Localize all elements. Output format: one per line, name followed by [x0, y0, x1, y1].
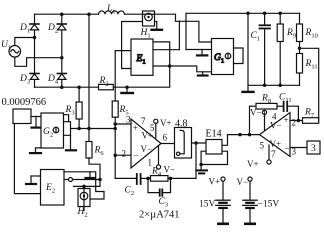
wire: E14 right upper pin from op2 output	[222, 135, 228, 146]
wire: feedback riser op2	[249, 106, 251, 134]
block E14	[206, 140, 222, 155]
block G2	[41, 113, 64, 148]
node: rail2 top junction	[60, 12, 64, 16]
wire: bridge output lower sense (U1 bottom)	[15, 57, 62, 66]
Hall sensor H1	[143, 11, 155, 26]
node: rail1 u1 junction	[33, 36, 37, 40]
capacitor C1	[260, 13, 271, 85]
wire: bridge rail 2 vertical	[61, 14, 63, 87]
svg-text:3: 3	[311, 144, 316, 154]
wire: E1 p3 to junction	[153, 65, 170, 67]
node: H2 top junction	[82, 185, 86, 189]
wire: E2 right upper pin to H2 loop	[64, 172, 104, 199]
node: pin2/C11 junction	[297, 119, 301, 123]
node: drop top	[246, 12, 250, 16]
svg-text:7: 7	[141, 116, 146, 126]
block output 3	[307, 141, 320, 154]
wire: E2 left lower pin from setpoint box	[14, 124, 40, 194]
svg-text:+: +	[133, 123, 138, 133]
node: junction at x169.7 y66	[168, 64, 172, 68]
svg-text:3: 3	[126, 115, 131, 125]
wire: 4.8 output to E14	[192, 142, 207, 144]
svg-text:4.8: 4.8	[175, 119, 188, 130]
wire: x89 long vertical from top bus	[88, 14, 90, 141]
wire: G2 top-right step	[64, 115, 69, 122]
node: C1 bottom	[263, 84, 267, 88]
ground: below dot B	[196, 165, 207, 174]
svg-text:V+: V+	[142, 131, 154, 141]
wire: op2 pin2 stub	[290, 120, 303, 122]
svg-text:−15V: −15V	[258, 200, 280, 210]
svg-text:0.0009766: 0.0009766	[2, 97, 47, 108]
node: R4 right junction	[169, 177, 173, 181]
svg-text:−: −	[285, 144, 290, 154]
node: R4 left junction	[146, 177, 150, 181]
wire: feedback riser	[195, 143, 197, 178]
svg-text:2: 2	[122, 149, 127, 159]
wire: G1 right loop	[234, 48, 244, 64]
svg-text:1: 1	[262, 109, 267, 119]
capacitor C11	[284, 102, 299, 121]
wire: G2 right loop	[64, 122, 71, 136]
wire: op2 pin3 stub	[290, 147, 307, 149]
node: riser junction at y128.5	[113, 127, 117, 131]
ground: on setpoint wire	[32, 117, 42, 128]
node: pin2 junction	[113, 153, 117, 157]
wire: top rail right section	[186, 12, 300, 14]
terminal: op1 V-	[156, 146, 160, 169]
wire: U1 top connection	[15, 38, 35, 46]
op-amp U3 (mu A741 #2), points left	[260, 113, 291, 157]
capacitor C3 parallel loop	[148, 178, 171, 195]
wire: pin3 stub	[115, 123, 131, 125]
inductor L1	[99, 11, 125, 14]
capacitor C2	[115, 174, 150, 184]
ground: G2 right loop ground	[66, 135, 76, 150]
wire: E1 p1 right to vertical x169.7 down to main wire	[35, 42, 170, 87]
wire: H1 left sense pin to E1 lower pin	[122, 22, 143, 69]
resistor R7	[303, 118, 319, 124]
node: C1 top	[263, 12, 267, 16]
diode D2	[57, 24, 66, 30]
node: R9 top	[278, 12, 282, 16]
wire: analog bottom rail	[248, 84, 300, 86]
node: dot B	[199, 163, 203, 167]
wire: H2 top wire	[74, 185, 101, 187]
svg-text:V−: V−	[250, 108, 262, 118]
wire: R4 right to riser	[168, 177, 196, 179]
block E2	[41, 170, 65, 206]
ground: G1 lower-left	[198, 72, 208, 76]
wire: G1 upper-left pin	[186, 49, 212, 51]
svg-text:5: 5	[260, 141, 265, 151]
svg-text:V+: V+	[209, 177, 221, 187]
recorder block 4.8	[175, 128, 192, 159]
ground: bottom rail ground	[243, 85, 254, 92]
svg-text:V−: V−	[141, 144, 153, 154]
svg-text:2×µA741: 2×µA741	[139, 210, 180, 221]
node: R6 top junction	[87, 127, 91, 131]
svg-text:7: 7	[271, 149, 276, 159]
node: T on R6 drop	[98, 178, 102, 182]
node: pin3 junction	[113, 122, 117, 126]
node: main wire ground junction	[125, 85, 129, 89]
wire: E1 p2 riser to jog	[153, 21, 179, 50]
svg-text:15V: 15V	[199, 200, 216, 210]
wire: E2 left upper pin with ground below	[26, 176, 41, 184]
node: R10/R11 junction	[298, 47, 302, 51]
battery -15V	[243, 177, 257, 224]
amplifier block E1	[131, 39, 153, 75]
Hall sensor H2	[78, 186, 90, 210]
wire: E2 right lower pin with terminal circle	[64, 178, 100, 182]
node: main wire rail2 junction	[60, 85, 64, 89]
resistor R11	[297, 54, 303, 86]
source U1	[9, 46, 21, 58]
ground: G2 bottom-left	[30, 148, 41, 153]
node: x89 vertical top junction	[87, 12, 91, 16]
terminal: op2 V+	[267, 145, 271, 164]
indicator circle in G1	[225, 53, 231, 59]
resistor R4	[151, 176, 169, 182]
svg-text:2: 2	[292, 118, 297, 128]
svg-text:6: 6	[163, 133, 168, 143]
diode D3	[30, 74, 39, 80]
ground: main wire ground	[121, 87, 132, 93]
node: feedback tap dot	[248, 133, 252, 137]
wire: pin2 stub	[115, 154, 131, 156]
svg-text:V−: V−	[270, 121, 282, 131]
node: main wire R3 junction	[77, 85, 81, 89]
svg-text:V−: V−	[164, 165, 176, 175]
svg-text:V+: V+	[270, 139, 282, 149]
svg-text:V+: V+	[247, 159, 259, 169]
wire: junction to G1 lower-left pin	[170, 66, 212, 72]
svg-text:E14: E14	[206, 129, 222, 140]
node: rail2 u1 junction	[60, 56, 64, 60]
diode D4	[57, 74, 66, 80]
wire: R3/R6 node wire to op-amp riser	[71, 128, 116, 130]
battery 15V	[216, 177, 230, 224]
terminal: op1 V+	[154, 119, 158, 138]
resistor R10	[297, 13, 303, 53]
svg-text:3: 3	[292, 147, 297, 157]
wire: main drop from top rail	[247, 13, 249, 85]
node: R9 bottom	[278, 84, 282, 88]
resistor R8	[250, 103, 283, 109]
wire: E1 upper-left pin to R5 riser	[115, 51, 131, 101]
wire: E14 bottom loop	[201, 151, 227, 164]
ground: H1 right ground	[152, 22, 163, 30]
resistor R9	[277, 13, 283, 85]
node: dot A	[194, 141, 198, 145]
diode D1	[30, 24, 39, 30]
node: R3 bottom junction	[77, 127, 81, 131]
svg-text:V+: V+	[160, 118, 172, 128]
resistor R5	[112, 101, 118, 178]
driver block G1	[212, 39, 234, 75]
wire: setpoint to G2	[31, 116, 41, 118]
wire: E14 lower-left pin	[201, 151, 206, 164]
svg-text:+: +	[284, 115, 289, 125]
terminal: op2 V-	[262, 110, 266, 130]
wire: bridge rail 1 vertical	[34, 14, 36, 87]
ground: G1 upper-left	[197, 50, 207, 56]
node: output dot	[238, 133, 242, 137]
resistor R2	[99, 84, 114, 89]
op-amp U2 (mu A741 #1)	[131, 119, 161, 168]
wire: riser to top rail	[185, 13, 187, 49]
svg-text:1: 1	[148, 158, 153, 168]
ground: on E2 right upper wire	[86, 172, 95, 178]
svg-text:V−: V−	[237, 177, 249, 187]
wire: op2 output run	[228, 134, 260, 136]
wire: H1 output to top-right rail jog	[155, 14, 212, 42]
wire: op1 output	[161, 143, 175, 145]
resistor R6	[86, 142, 100, 187]
wire: junction to right edge drop to R7	[300, 48, 319, 120]
resistor R3	[76, 87, 82, 128]
wire: L1 to H1	[125, 13, 143, 15]
svg-text:−: −	[134, 151, 139, 161]
wire: top DC bus left section	[35, 13, 99, 15]
reference box (setpoint)	[13, 109, 31, 124]
